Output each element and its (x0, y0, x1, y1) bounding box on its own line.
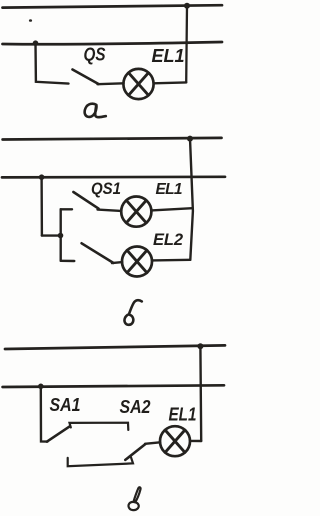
wire: circuit v top bus L1 (5, 345, 225, 349)
wire: circuit a second bus L2 (3, 42, 223, 44)
svg-text:EL2: EL2 (153, 231, 183, 249)
wire: circuit b top bus L1 (3, 138, 222, 140)
wire: right vertical circuit b (190, 139, 193, 260)
wire: right vertical circuit v (199, 346, 202, 441)
wire: lamp EL1 to right vertical (154, 81, 187, 84)
wire: left vertical from L2 to switch SA1 (41, 386, 48, 441)
wire: right vertical from L1 dot down to lamp EL1 level (crosses L2) (185, 6, 188, 82)
wire: left vertical from L2 down (40, 177, 43, 235)
wire: branch from L2 down and right to switch QS (36, 43, 69, 83)
wire: upper traveler with contact ticks (70, 423, 129, 430)
wire: circuit b second bus L2 (2, 175, 225, 178)
svg-text:QS1: QS1 (91, 180, 121, 198)
lamp EL1 (b) circle (121, 197, 151, 227)
lamp EL1 cross (129, 73, 149, 95)
node: junction dot on L2 (33, 40, 39, 46)
svg-text:EL1: EL1 (152, 46, 185, 66)
wire: circuit v second bus L2 (3, 385, 224, 387)
lamp EL2 circle (122, 247, 152, 277)
lamp EL2 cross (127, 250, 147, 272)
wire: top lead into switch QS1 pole 1 (61, 208, 72, 210)
label v (sub-figure) (129, 487, 141, 510)
switch SA1 blade (47, 426, 70, 441)
lamp EL1 (b) cross (126, 200, 146, 222)
wire: SA2 to lamp EL1 (v) (145, 442, 160, 444)
wire: bottom lead from bracket to switch QS1 pole 2 (61, 260, 75, 263)
wire: bottom lead right to lamp EL2 (152, 259, 190, 262)
svg-text:SA1: SA1 (50, 395, 81, 415)
node: junction dot circuit b L2 (39, 174, 45, 180)
wire: QS to lamp EL1 (98, 82, 124, 85)
lamp EL1 (v) circle (160, 426, 190, 456)
switch QS1 blade pole 2 (82, 243, 114, 263)
switch QS1 blade pole 1 (73, 192, 98, 209)
lamp EL1 (v) cross (165, 430, 185, 452)
wire: pole1 to lamp EL1 (98, 210, 122, 211)
wire: lower traveler with contact ticks (68, 457, 133, 466)
node: junction dot circuit v L1 (197, 343, 203, 349)
svg-text:SA2: SA2 (120, 397, 151, 417)
switch QS blade (open) (73, 70, 99, 85)
wire: horizontal connector to bracket (42, 234, 61, 236)
lamp EL1 circle (123, 69, 153, 99)
svg-text:QS: QS (84, 45, 106, 65)
node: junction dot circuit v L2 (38, 384, 44, 390)
node: junction dot circuit b L1 (187, 136, 193, 142)
switch SA2 blade (125, 444, 145, 460)
wire: lamp EL1 (b) to right vertical (151, 208, 192, 210)
svg-text:EL1: EL1 (156, 181, 183, 198)
node: junction dot at bracket (58, 233, 64, 239)
wire: bracket vertical (60, 209, 62, 260)
label b (sub-figure) (124, 300, 141, 325)
svg-text:EL1: EL1 (169, 405, 197, 425)
wire: pole2 to lamp EL2 (112, 262, 122, 263)
node: junction dot on L1 (184, 3, 190, 9)
wire: lamp EL1 (v) to right vertical (190, 440, 201, 443)
label a (sub-figure) (85, 104, 106, 118)
wire: circuit a top bus L1 (3, 5, 223, 7)
